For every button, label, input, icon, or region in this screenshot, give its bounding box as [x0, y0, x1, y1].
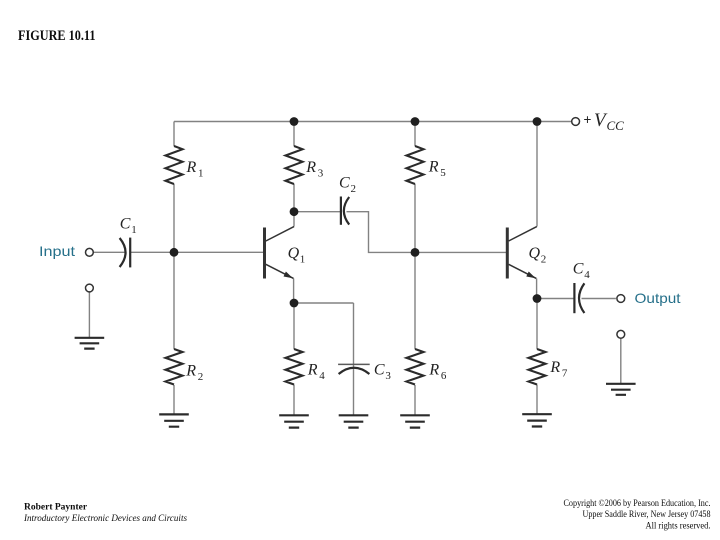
svg-text:6: 6 [441, 370, 447, 382]
svg-text:R: R [428, 159, 439, 176]
svg-text:4: 4 [319, 370, 325, 382]
svg-text:Copyright ©2006 by Pearson Edu: Copyright ©2006 by Pearson Education, In… [564, 498, 711, 508]
svg-text:R: R [307, 362, 318, 379]
svg-text:CC: CC [607, 118, 625, 133]
svg-text:C: C [339, 175, 350, 192]
svg-text:Q: Q [529, 245, 541, 262]
svg-text:5: 5 [440, 167, 446, 179]
svg-text:3: 3 [385, 370, 391, 382]
svg-text:Upper Saddle River, New Jersey: Upper Saddle River, New Jersey 07458 [583, 509, 711, 519]
svg-text:1: 1 [131, 224, 137, 236]
svg-text:Output: Output [635, 290, 681, 306]
svg-text:Q: Q [288, 245, 300, 262]
svg-text:Introductory Electronic Device: Introductory Electronic Devices and Circ… [23, 514, 187, 524]
svg-text:FIGURE 10.11: FIGURE 10.11 [18, 28, 96, 44]
svg-text:Robert Paynter: Robert Paynter [24, 503, 88, 513]
svg-text:R: R [305, 159, 316, 176]
svg-text:+: + [584, 112, 592, 127]
svg-text:1: 1 [300, 254, 306, 266]
svg-text:C: C [120, 216, 131, 233]
svg-text:4: 4 [584, 269, 590, 281]
svg-text:2: 2 [351, 183, 357, 195]
svg-text:All rights reserved.: All rights reserved. [646, 520, 711, 530]
svg-text:C: C [573, 261, 584, 278]
svg-text:R: R [428, 362, 439, 379]
svg-text:3: 3 [318, 168, 324, 180]
svg-text:2: 2 [198, 371, 204, 383]
svg-text:R: R [186, 159, 197, 176]
svg-text:C: C [374, 361, 385, 378]
svg-text:R: R [185, 363, 196, 380]
svg-text:7: 7 [562, 368, 568, 380]
svg-text:1: 1 [198, 168, 204, 180]
svg-text:2: 2 [541, 254, 547, 266]
svg-text:R: R [549, 359, 560, 376]
svg-text:Input: Input [39, 243, 75, 259]
